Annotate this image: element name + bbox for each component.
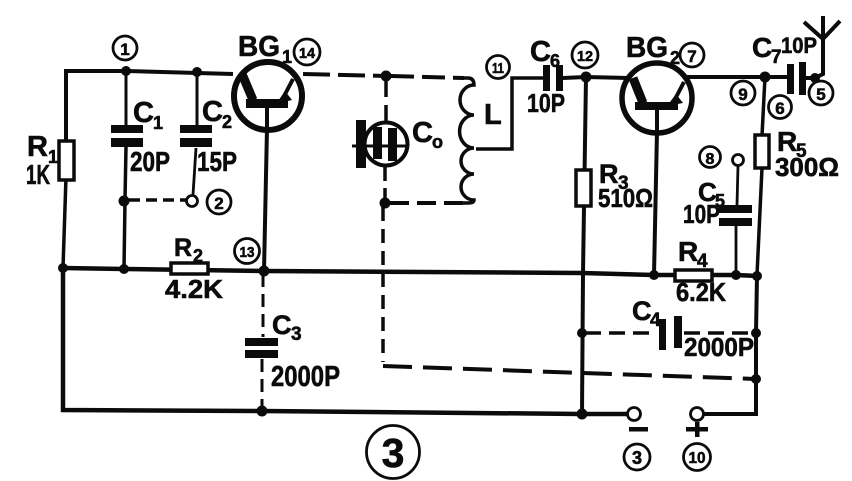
svg-text:C: C [632, 296, 652, 326]
node 5 [809, 81, 833, 105]
svg-text:C: C [530, 36, 551, 68]
wire dashed shield bottom rail [383, 366, 756, 379]
resistor R4 [675, 270, 712, 281]
wire C7 junction down through R5 to mid rail [757, 77, 765, 275]
terminal plus open circle [691, 408, 704, 421]
node 1 [113, 36, 137, 60]
wire dashed C3 bottom lead [261, 359, 264, 409]
wire C1 bottom lead through node to mid rail [124, 147, 126, 269]
junction node 13 [259, 266, 270, 277]
label R3 [598, 159, 653, 213]
wire C6 right plate to node 12 to BG2 [563, 77, 629, 78]
node 2 [207, 190, 231, 214]
label C7 [752, 32, 817, 68]
wire C7 output stub [806, 76, 817, 80]
capacitor C2 [180, 125, 212, 147]
junction top rail at node 1 [121, 66, 131, 76]
capacitor C4 [659, 316, 682, 350]
wire dashed coil bottom to oscillator node [390, 201, 463, 205]
junction oscillator top node [381, 71, 392, 82]
svg-text:C: C [272, 310, 292, 340]
svg-text:12: 12 [577, 48, 593, 65]
junction node 12 [581, 72, 592, 83]
capacitor C6 [543, 65, 563, 91]
junction shield rail right [751, 374, 761, 384]
svg-text:6: 6 [775, 99, 784, 118]
wire dashed C3 top lead [262, 274, 265, 337]
svg-text:1: 1 [153, 113, 163, 133]
svg-text:3: 3 [632, 448, 642, 468]
wire node 12 vertical through R3 down to ground rail [582, 77, 586, 414]
label R5 [775, 126, 839, 182]
svg-text:15P: 15P [197, 146, 237, 177]
wire C2 top lead [196, 72, 199, 126]
wire dashed Co bottom lead [383, 166, 387, 201]
svg-text:4.2K: 4.2K [165, 274, 223, 304]
wire dashed C4 left lead [585, 331, 657, 335]
svg-text:13: 13 [240, 244, 255, 261]
svg-text:9: 9 [738, 85, 747, 104]
inductor L tapped coil [460, 78, 474, 203]
wire mid rail [63, 268, 758, 276]
junction C4 left [577, 328, 587, 338]
svg-text:20P: 20P [130, 146, 170, 177]
figure number 3 [367, 426, 420, 479]
junction C7 branch [760, 72, 771, 83]
junction mid rail left [58, 263, 68, 273]
svg-text:14: 14 [299, 45, 316, 62]
node 7 [680, 43, 704, 67]
wire C2 bottom lead to terminal 2 [193, 148, 196, 195]
svg-text:1: 1 [120, 40, 129, 59]
wire R1 bottom lead to mid rail [63, 177, 66, 268]
svg-text:C: C [412, 117, 433, 149]
junction C1 bottom node [119, 196, 130, 207]
node 12 [572, 42, 598, 68]
svg-text:4: 4 [697, 251, 708, 272]
terminal node 8 open circle [733, 155, 744, 166]
svg-text:10P: 10P [683, 199, 720, 229]
svg-text:300Ω: 300Ω [775, 152, 839, 182]
svg-text:2: 2 [222, 112, 232, 132]
svg-text:o: o [432, 132, 443, 152]
node 11 [487, 56, 510, 79]
junction mid rail BG2 base [649, 270, 659, 280]
junction ground rail C3 [257, 406, 268, 417]
node 8 [700, 147, 721, 169]
resistor R3 [576, 170, 591, 206]
junction oscillator bottom node [380, 198, 391, 209]
transistor BG2 [622, 63, 692, 133]
capacitor C5 [719, 205, 752, 226]
wire dashed Co top lead [384, 78, 388, 122]
label C5 [683, 177, 725, 229]
svg-text:R: R [174, 234, 192, 262]
node 3 battery minus [624, 444, 650, 470]
svg-text:L: L [484, 99, 502, 131]
resistor R1 [59, 141, 74, 180]
wire coil tap to C6 [476, 78, 543, 149]
node 13 [235, 239, 260, 264]
svg-text:1: 1 [282, 47, 292, 67]
svg-text:2: 2 [214, 194, 223, 213]
resistor R2 [171, 263, 208, 274]
wire C1 top lead [125, 71, 128, 126]
capacitor C3 [245, 338, 278, 358]
capacitor C1 [111, 125, 143, 147]
wire BG2 base lead to mid rail [654, 131, 657, 275]
antenna [804, 16, 840, 78]
label R4 [676, 236, 726, 307]
svg-text:BG: BG [238, 31, 280, 63]
svg-text:BG: BG [626, 32, 668, 64]
node 10 battery plus [684, 444, 711, 471]
wire dashed link to terminal 2 [129, 198, 186, 202]
wire left vertical + bottom ground rail to minus terminal [63, 268, 628, 414]
svg-text:4: 4 [650, 310, 661, 331]
svg-text:10P: 10P [781, 33, 817, 58]
svg-text:7: 7 [687, 47, 696, 66]
terminal node 2 open circle [187, 196, 198, 207]
label BG1 [238, 31, 292, 67]
wire terminal 8 lead to C5 [737, 166, 738, 205]
svg-text:1K: 1K [26, 159, 50, 190]
svg-text:510Ω: 510Ω [598, 183, 653, 213]
junction mid rail C1 branch [119, 264, 129, 274]
wire dashed shield drop from node to shield bottom [381, 207, 385, 362]
label BG2 [626, 32, 680, 68]
wire right vertical mid rail to plus terminal corner [703, 276, 757, 414]
svg-text:11: 11 [492, 60, 504, 77]
label R2 [165, 234, 223, 304]
junction mid rail C5 [731, 270, 741, 280]
label C4 [632, 296, 754, 362]
junction ground rail R3 branch [577, 409, 588, 420]
label C1 [130, 97, 170, 177]
label Co [412, 117, 443, 152]
svg-text:3: 3 [382, 430, 405, 476]
svg-text:7: 7 [771, 47, 782, 68]
svg-text:6.2K: 6.2K [676, 277, 726, 307]
svg-text:2000P: 2000P [684, 332, 754, 362]
capacitor C7 [787, 62, 806, 95]
node 9 [731, 81, 755, 105]
minus sign [629, 427, 648, 432]
label C2 [197, 96, 237, 177]
transistor BG1 [234, 62, 302, 130]
label C3 [271, 310, 340, 393]
svg-text:2: 2 [193, 246, 203, 266]
junction antenna feed [810, 73, 820, 83]
wire BG2 collector to C7 [686, 75, 787, 79]
svg-text:8: 8 [706, 151, 715, 168]
variable capacitor Co [352, 120, 409, 168]
node 14 [294, 39, 320, 65]
resistor R5 [755, 135, 769, 168]
wire C5 bottom lead to mid rail [735, 226, 738, 275]
svg-text:C: C [752, 32, 772, 63]
svg-text:R: R [678, 236, 698, 267]
node 6 [769, 96, 792, 119]
svg-text:3: 3 [291, 324, 302, 345]
junction mid rail right end [752, 271, 762, 281]
wire dashed BG1 collector to oscillator node [303, 74, 386, 76]
wire dashed oscillator node to coil top [391, 76, 464, 78]
svg-text:10P: 10P [527, 88, 565, 118]
plus sign [686, 422, 708, 437]
svg-text:C: C [133, 97, 154, 129]
svg-text:2000P: 2000P [271, 361, 340, 393]
wire dashed C4 right lead [684, 331, 753, 335]
junction C2 top [192, 67, 202, 77]
wire top rail left: R1 top to BG1 base-left [66, 71, 233, 145]
svg-text:6: 6 [550, 51, 560, 71]
svg-text:C: C [202, 96, 223, 128]
junction C4 right [751, 328, 761, 338]
svg-text:2: 2 [670, 48, 680, 68]
label R1 [26, 131, 58, 190]
label C6 [527, 36, 565, 118]
wire BG1 base lead down to node 13 [264, 128, 267, 271]
svg-text:10: 10 [689, 450, 706, 467]
terminal minus open circle [628, 408, 641, 421]
svg-text:5: 5 [816, 85, 825, 104]
